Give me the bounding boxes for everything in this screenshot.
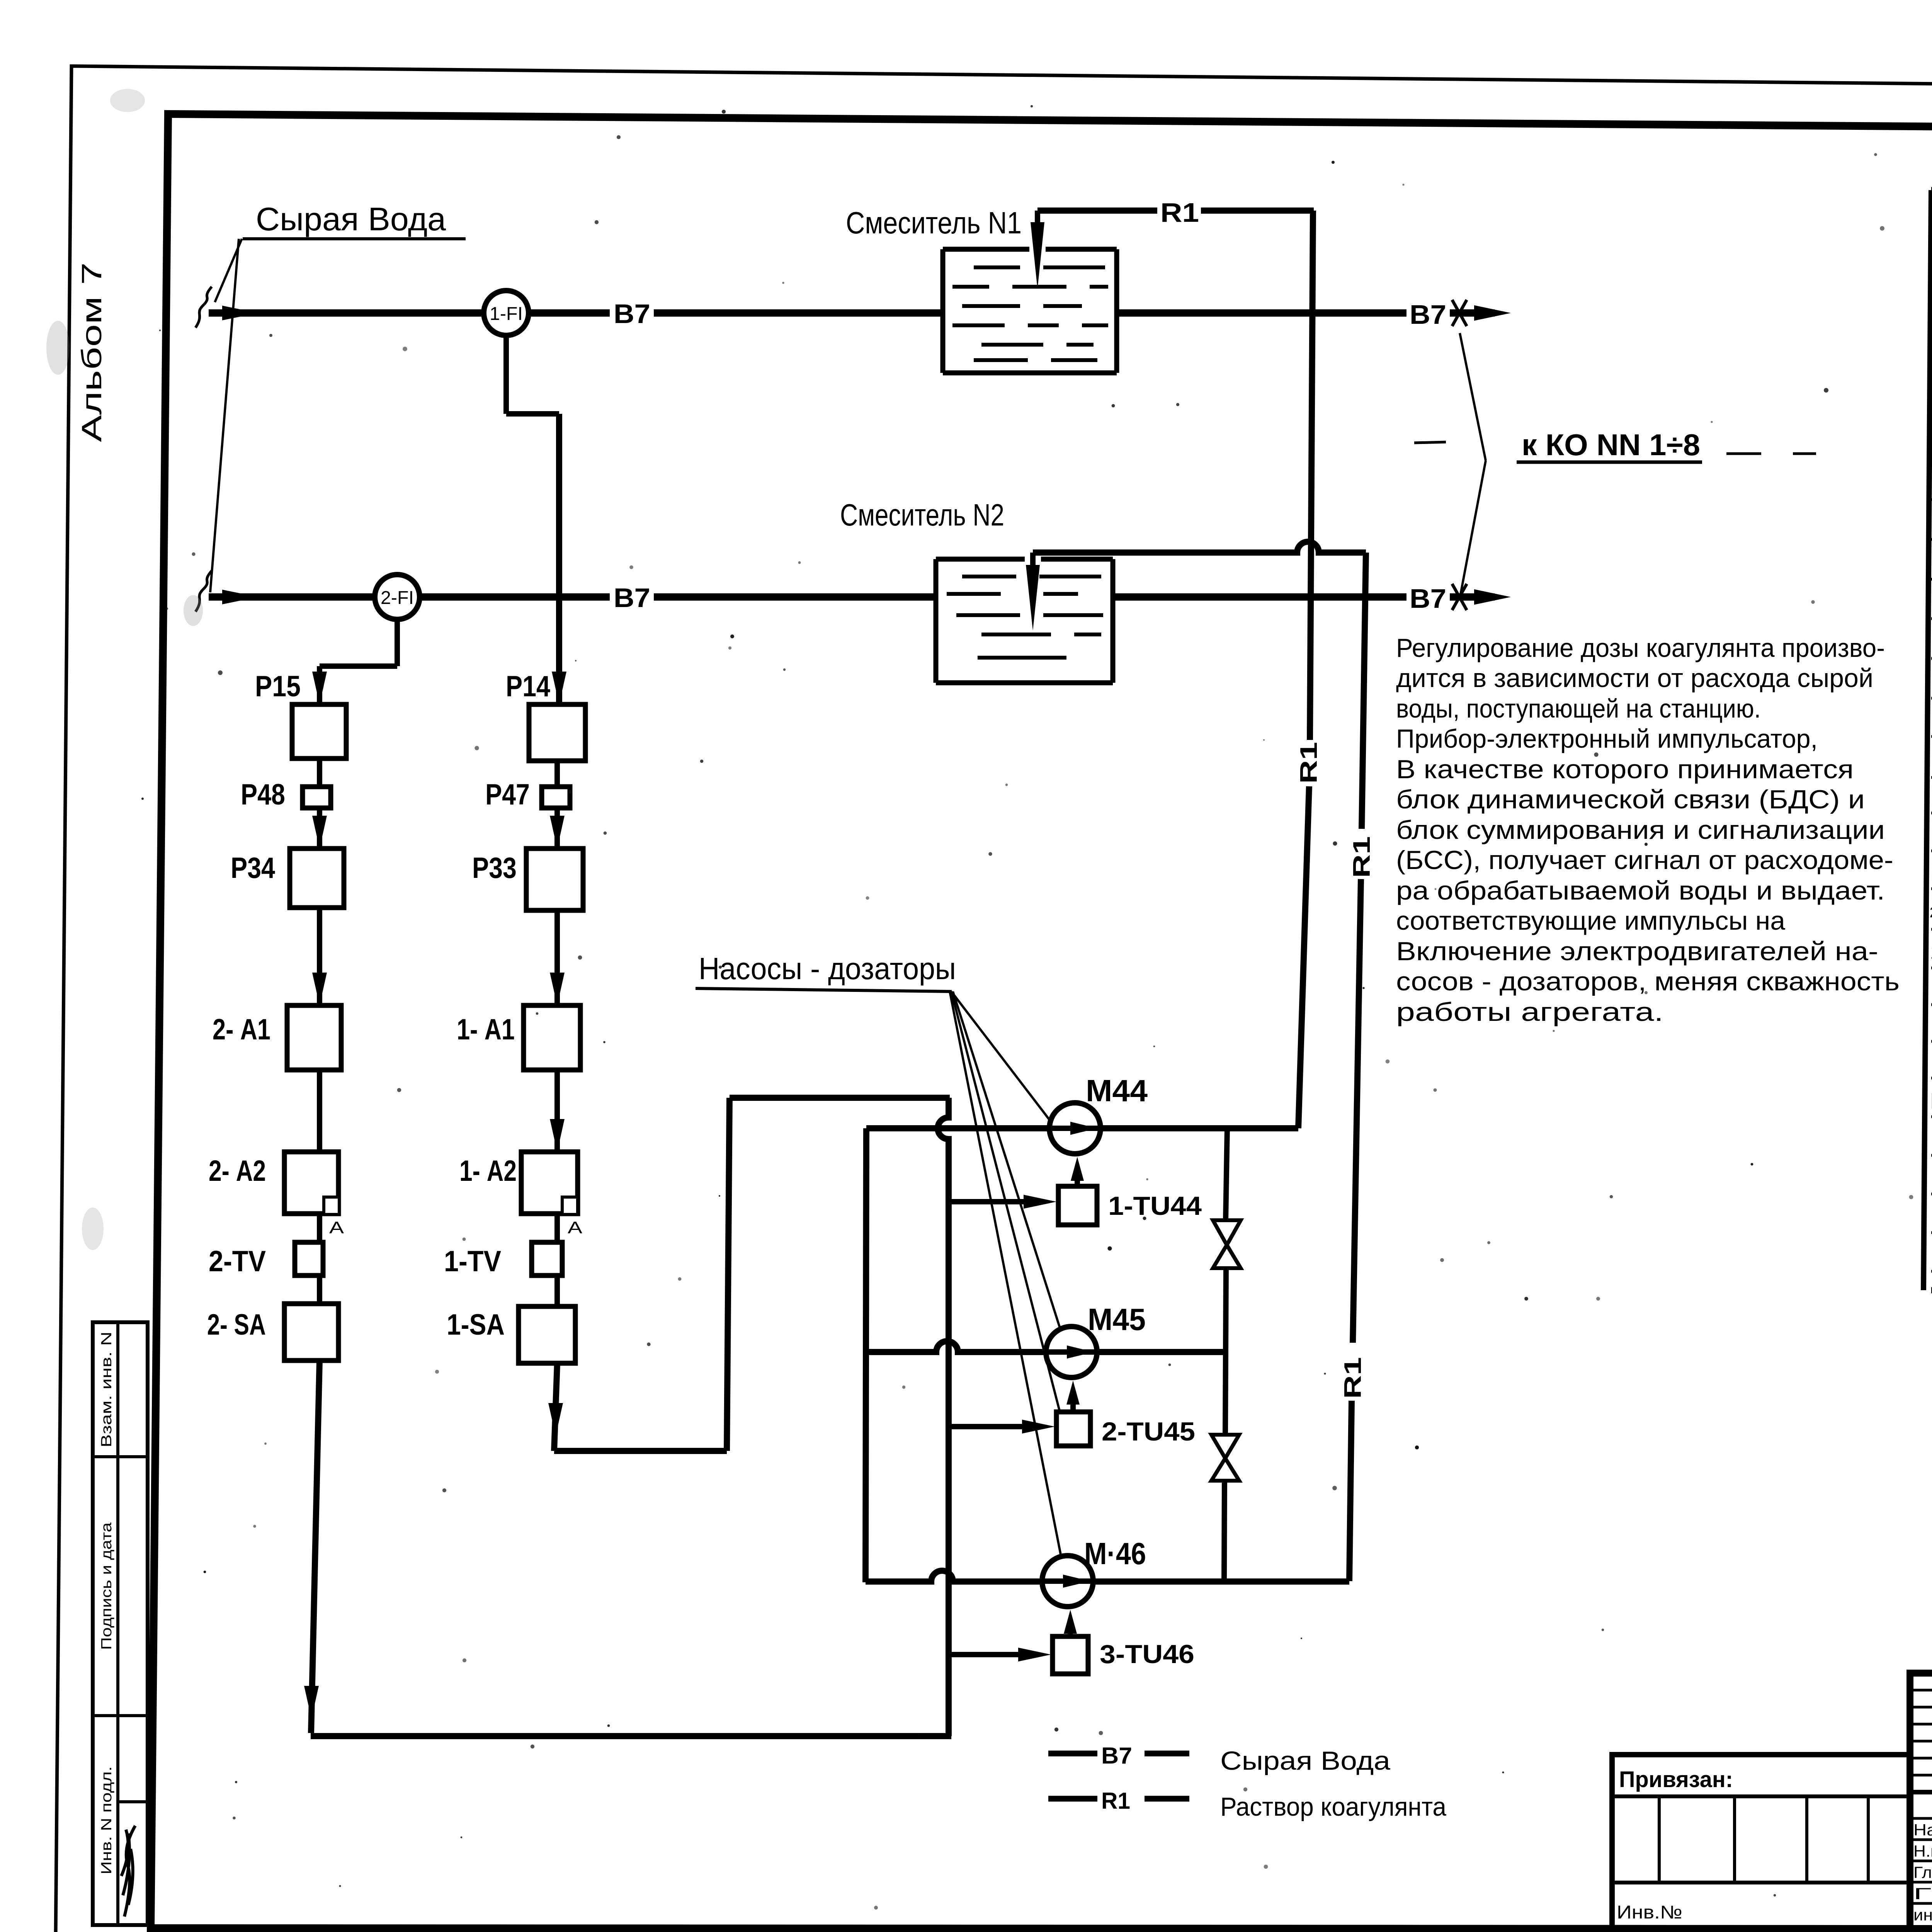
svg-text:2-ТU45: 2-ТU45 — [1102, 1417, 1195, 1446]
svg-text:1- А2: 1- А2 — [459, 1155, 517, 1187]
svg-text:Н.контр.: Н.контр. — [1913, 1842, 1932, 1860]
svg-text:сосов - дозаторов, меняя скваж: сосов - дозаторов, меняя скважность — [1396, 967, 1900, 996]
svg-text:Р15: Р15 — [255, 670, 301, 703]
svg-text:В7: В7 — [1101, 1743, 1132, 1769]
svg-text:А: А — [329, 1218, 344, 1237]
svg-text:Гл.спец.: Гл.спец. — [1913, 1863, 1932, 1881]
svg-text:R1: R1 — [1101, 1788, 1130, 1814]
svg-text:Привязан:: Привязан: — [1619, 1767, 1733, 1792]
svg-text:2-ТV: 2-ТV — [209, 1245, 266, 1278]
svg-text:работы агрегата.: работы агрегата. — [1396, 997, 1663, 1027]
svg-text:В7: В7 — [1410, 299, 1446, 330]
svg-text:М44: М44 — [1086, 1073, 1148, 1108]
svg-text:2- А1: 2- А1 — [213, 1013, 270, 1046]
svg-text:3-ТU46: 3-ТU46 — [1100, 1639, 1194, 1669]
svg-text:Инв.№: Инв.№ — [1617, 1902, 1682, 1923]
svg-text:ГЭП: ГЭП — [1913, 1884, 1932, 1903]
svg-text:1-SА: 1-SА — [447, 1308, 505, 1341]
svg-text:Р14: Р14 — [506, 670, 550, 703]
svg-text:Р33: Р33 — [472, 852, 517, 884]
svg-text:Регулирование дозы коагулянта: Регулирование дозы коагулянта произво- — [1396, 633, 1885, 663]
svg-text:Р48: Р48 — [241, 778, 285, 811]
svg-text:В7: В7 — [614, 299, 650, 329]
svg-text:1- А1: 1- А1 — [457, 1013, 515, 1046]
svg-text:R1: R1 — [1296, 742, 1322, 784]
svg-text:Включение электродвигателей на: Включение электродвигателей на- — [1396, 937, 1878, 966]
svg-text:Смеситель N1: Смеситель N1 — [846, 206, 1022, 240]
svg-text:Взам. инв. N: Взам. инв. N — [99, 1332, 115, 1447]
svg-text:Р34: Р34 — [231, 852, 275, 884]
svg-text:ра обрабатываемой воды и выдае: ра обрабатываемой воды и выдает. — [1396, 876, 1885, 905]
svg-text:Нач.отд: Нач.отд — [1913, 1821, 1932, 1839]
svg-text:R1: R1 — [1160, 197, 1199, 228]
svg-text:R1: R1 — [1340, 1357, 1366, 1399]
svg-text:воды, поступающей на станцию.: воды, поступающей на станцию. — [1396, 694, 1761, 723]
svg-text:Альбом 7: Альбом 7 — [77, 262, 107, 442]
svg-text:Р47: Р47 — [485, 778, 530, 811]
svg-text:R1: R1 — [1349, 836, 1375, 878]
svg-text:В7: В7 — [1410, 583, 1446, 614]
svg-text:2-FI: 2-FI — [381, 588, 414, 608]
svg-text:2- SА: 2- SА — [207, 1308, 266, 1341]
svg-text:Сырая Вода: Сырая Вода — [256, 201, 446, 237]
svg-text:соответствующие импульсы на: соответствующие импульсы на — [1396, 906, 1785, 935]
svg-text:дится в зависимости от расхода: дится в зависимости от расхода сырой — [1396, 663, 1873, 693]
svg-text:1-ТU44: 1-ТU44 — [1108, 1191, 1202, 1221]
svg-text:Инв. N подл.: Инв. N подл. — [99, 1766, 115, 1874]
svg-text:Смеситель N2: Смеситель N2 — [840, 498, 1004, 532]
svg-text:В7: В7 — [614, 583, 650, 613]
svg-text:2-ТU45,3-ТU46: 2-ТU45,3-ТU46 — [1930, 905, 1932, 921]
svg-text:А: А — [568, 1218, 583, 1237]
svg-text:В качестве которого принимаетс: В качестве которого принимается — [1396, 755, 1854, 784]
svg-text:М45: М45 — [1088, 1302, 1146, 1337]
svg-text:Раствор коагулянта: Раствор коагулянта — [1220, 1792, 1446, 1821]
svg-text:к КО NN 1÷8: к КО NN 1÷8 — [1522, 428, 1700, 462]
svg-text:Прибор-электронный импульсатор: Прибор-электронный импульсатор, — [1396, 724, 1818, 753]
svg-text:Насосы - дозаторы: Насосы - дозаторы — [699, 951, 956, 986]
svg-text:1-FI: 1-FI — [490, 304, 523, 324]
svg-text:Сырая Вода: Сырая Вода — [1220, 1746, 1390, 1776]
svg-text:(БСС), получает сигнал от расх: (БСС), получает сигнал от расходоме- — [1396, 845, 1893, 875]
svg-text:инж.П к.: инж.П к. — [1913, 1906, 1932, 1924]
svg-text:блок суммирования и сигнализац: блок суммирования и сигнализации — [1396, 815, 1885, 845]
svg-text:1-ТV, 2-ТV: 1-ТV, 2-ТV — [1930, 941, 1932, 963]
svg-text:М44:М46: М44:М46 — [1930, 1088, 1932, 1114]
svg-text:2- А2: 2- А2 — [209, 1155, 266, 1187]
svg-text:1-ТV: 1-ТV — [444, 1245, 501, 1278]
svg-text:Подпись и дата: Подпись и дата — [99, 1522, 115, 1650]
svg-text:блок динамической связи (БДС): блок динамической связи (БДС) и — [1396, 785, 1865, 814]
svg-text:М·46: М·46 — [1084, 1536, 1146, 1571]
